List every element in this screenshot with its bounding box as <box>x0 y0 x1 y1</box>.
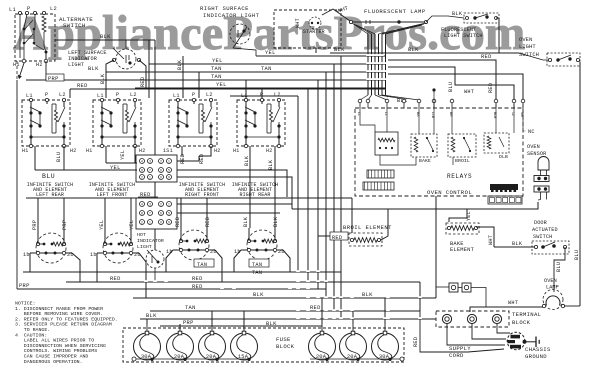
fuse 15A <box>231 333 258 360</box>
svg-text:1b: 1b <box>90 252 97 258</box>
connector block upper <box>136 155 177 182</box>
svg-text:H2: H2 <box>266 148 273 154</box>
oven control connector strip 2 <box>363 182 394 190</box>
svg-text:BLK: BLK <box>88 66 99 72</box>
svg-text:PRP: PRP <box>62 220 68 230</box>
svg-text:RIGHT SURFACE: RIGHT SURFACE <box>200 5 249 12</box>
label PRP boxed <box>46 74 64 81</box>
infinite switch left front box <box>93 100 141 146</box>
svg-text:TO RANGE.: TO RANGE. <box>15 327 50 333</box>
svg-text:H2: H2 <box>139 148 146 154</box>
svg-text:H2: H2 <box>36 62 43 68</box>
svg-text:5: 5 <box>168 211 170 215</box>
svg-text:3: 3 <box>149 159 151 163</box>
wire BLK from alternate switch to center <box>55 39 155 41</box>
svg-text:2b: 2b <box>67 252 74 258</box>
relay internal wires <box>386 108 388 132</box>
svg-text:RED: RED <box>180 154 186 164</box>
alternate switch contacts <box>19 14 21 58</box>
alternate switch heater coil <box>42 16 46 32</box>
wire bus y319 BLK <box>140 318 436 320</box>
svg-text:L2: L2 <box>206 92 213 98</box>
wire BLU y67 <box>388 67 514 100</box>
svg-text:H2: H2 <box>70 148 77 154</box>
oven control box <box>355 108 523 196</box>
oven control inner left box <box>375 132 398 155</box>
svg-text:LIGHT SWITCH: LIGHT SWITCH <box>444 33 483 39</box>
svg-text:BAKE: BAKE <box>419 158 431 164</box>
svg-text:BROIL ELEMENT: BROIL ELEMENT <box>343 224 392 231</box>
svg-text:BLK: BLK <box>362 292 373 298</box>
svg-text:NOTICE:: NOTICE: <box>15 301 36 307</box>
svg-text:TAN: TAN <box>252 270 262 276</box>
wire RED y89 <box>70 88 386 90</box>
svg-text:BLK: BLK <box>146 313 157 319</box>
svg-text:7: 7 <box>149 211 151 215</box>
svg-text:6: 6 <box>160 211 162 215</box>
svg-text:2. REFER ONLY TO FEATURES EQUI: 2. REFER ONLY TO FEATURES EQUIPPED. <box>15 316 118 322</box>
svg-text:P: P <box>45 92 48 98</box>
svg-text:LEFT REAR: LEFT REAR <box>36 192 64 198</box>
sensor connector black pins <box>493 181 495 183</box>
svg-text:L2: L2 <box>130 92 137 98</box>
wire BLK bus y53 <box>330 52 519 54</box>
svg-text:LABEL ALL WIRES PRIOR TO: LABEL ALL WIRES PRIOR TO <box>15 338 94 344</box>
wire y209 long to oven control <box>292 202 538 209</box>
svg-text:BLK: BLK <box>243 216 249 227</box>
right surface indicator lamp <box>230 24 250 44</box>
infinite switch right front terminals <box>176 98 179 101</box>
infinite switch right rear contacts <box>245 102 247 112</box>
fuse 20A <box>309 333 336 360</box>
svg-text:9: 9 <box>168 220 170 224</box>
svg-text:WHT: WHT <box>295 18 301 28</box>
hot indicator lamp <box>146 250 164 268</box>
infinite switch left front contacts <box>101 102 103 112</box>
svg-text:BLK: BLK <box>244 155 250 166</box>
svg-text:RED: RED <box>413 337 419 347</box>
svg-text:6: 6 <box>160 168 162 172</box>
infinite switch right front box <box>169 100 217 146</box>
broil relay <box>448 134 476 157</box>
surface element right front <box>179 230 209 260</box>
svg-text:TAN: TAN <box>211 74 222 80</box>
svg-text:TAN: TAN <box>261 66 272 72</box>
svg-text:BLK: BLK <box>100 34 111 40</box>
svg-text:WHT: WHT <box>508 300 518 306</box>
fuse 20A <box>340 333 367 360</box>
infinite switch right rear terminals <box>244 98 247 101</box>
svg-text:RIGHT FRONT: RIGHT FRONT <box>185 192 219 198</box>
svg-text:H1: H1 <box>86 148 93 154</box>
svg-text:YEL: YEL <box>265 50 276 56</box>
element vertical feeds <box>37 198 39 244</box>
fuse 30A <box>134 333 161 360</box>
connector wires right <box>177 156 199 161</box>
svg-text:RED: RED <box>481 54 492 60</box>
door actuated switch <box>532 241 569 254</box>
svg-text:1: 1 <box>168 202 170 206</box>
svg-text:WHT: WHT <box>464 89 474 95</box>
svg-text:BA: BA <box>416 112 420 117</box>
svg-text:GROUND: GROUND <box>525 353 547 360</box>
relay internal wires right <box>495 104 497 133</box>
svg-text:OVEN: OVEN <box>527 144 540 150</box>
wire vertical x183 BLK <box>182 56 184 98</box>
svg-text:RED: RED <box>205 217 211 227</box>
fuse 20A <box>199 333 226 360</box>
svg-text:RED: RED <box>77 83 88 89</box>
svg-text:DLB: DLB <box>499 154 508 160</box>
svg-text:RED: RED <box>192 284 203 290</box>
svg-text:LIGHT: LIGHT <box>137 244 152 250</box>
svg-text:ELEMENT: ELEMENT <box>450 247 475 253</box>
svg-text:BLU: BLU <box>56 152 62 162</box>
svg-text:RELAYS: RELAYS <box>447 173 472 180</box>
vertical x436 from oven control <box>435 196 437 298</box>
label BLK y313 <box>145 298 147 313</box>
svg-text:7: 7 <box>149 168 151 172</box>
infinite switch right front contacts <box>177 102 179 112</box>
indicator square 2 <box>462 283 471 292</box>
TAN labels boxed under elements <box>194 259 214 267</box>
svg-text:1: 1 <box>168 159 170 163</box>
svg-text:LIGHT: LIGHT <box>68 62 84 68</box>
svg-text:2: 2 <box>141 220 143 224</box>
svg-text:L2: L2 <box>59 92 66 98</box>
svg-text:CAN CAUSE IMPROPER AND: CAN CAUSE IMPROPER AND <box>15 354 88 360</box>
svg-text:YEL: YEL <box>129 220 135 230</box>
wire BLK horizontal y72 <box>106 71 386 73</box>
surface element left front <box>103 233 133 263</box>
svg-text:SWITCH: SWITCH <box>533 234 552 240</box>
wire bus y326 PRP <box>160 325 322 327</box>
svg-text:1: 1 <box>149 175 151 179</box>
svg-text:PRP: PRP <box>32 220 38 230</box>
svg-text:L1: L1 <box>9 7 16 13</box>
svg-text:4: 4 <box>141 202 143 206</box>
left surface indicator light lamp <box>116 49 136 69</box>
chassis ground plug <box>507 332 525 350</box>
svg-text:RED: RED <box>488 83 494 93</box>
svg-text:1. DISCONNECT RANGE FROM POWER: 1. DISCONNECT RANGE FROM POWER <box>15 306 103 312</box>
svg-text:TAN: TAN <box>252 262 262 268</box>
wire right indicator to YEL bus <box>233 48 256 56</box>
numbered plug boxes <box>488 196 522 204</box>
wire stubs to switch 4 <box>245 80 247 98</box>
bake relay <box>411 134 437 157</box>
svg-text:YEL: YEL <box>99 220 105 230</box>
wire WHT lamp to terminal block <box>470 307 543 312</box>
svg-text:CONTROLS. WIRING PROBLEMS: CONTROLS. WIRING PROBLEMS <box>15 348 97 354</box>
svg-text:1S1: 1S1 <box>163 148 173 154</box>
svg-text:TERMINAL: TERMINAL <box>512 311 541 318</box>
svg-text:BLOCK: BLOCK <box>276 343 295 350</box>
infinite switch left rear contacts <box>30 102 32 112</box>
svg-text:WHT: WHT <box>488 235 494 245</box>
element bottom feeds <box>29 253 31 272</box>
svg-text:HOT: HOT <box>137 232 146 238</box>
wire bus y311 TAN/RED <box>150 310 420 312</box>
svg-text:8: 8 <box>141 211 143 215</box>
svg-text:3. SERVICER PLEASE RETURN DIAG: 3. SERVICER PLEASE RETURN DIAGRAM <box>15 322 112 328</box>
element left rear lower contact row <box>30 252 72 254</box>
svg-text:YEL: YEL <box>120 150 126 160</box>
infinite switch left front terminals <box>100 98 103 101</box>
svg-text:BLK: BLK <box>177 59 183 70</box>
svg-text:STARTER: STARTER <box>303 29 325 35</box>
svg-text:0: 0 <box>160 175 162 179</box>
svg-text:P: P <box>116 92 119 98</box>
svg-text:L1: L1 <box>97 93 104 99</box>
wire BLU door switch to lamp <box>554 247 565 292</box>
fuse block box <box>123 328 404 362</box>
wire BLK verticals from switch4 <box>249 146 251 228</box>
broil wires <box>318 235 330 237</box>
svg-text:BLB: BLB <box>493 112 497 119</box>
svg-text:P: P <box>260 92 263 98</box>
terminal block box <box>436 311 509 327</box>
wire YEL y88 <box>135 87 386 89</box>
svg-text:12: 12 <box>511 112 515 116</box>
svg-text:BLK: BLK <box>100 73 106 84</box>
svg-text:2b: 2b <box>134 252 141 258</box>
svg-text:TAN: TAN <box>211 66 222 72</box>
svg-text:FUSE: FUSE <box>276 336 291 343</box>
wire bus y272 <box>23 271 341 273</box>
svg-text:L1: L1 <box>357 112 361 116</box>
svg-text:BLK: BLK <box>273 216 279 227</box>
svg-text:2b: 2b <box>278 249 285 255</box>
svg-text:PRP: PRP <box>19 283 30 289</box>
svg-text:BLU: BLU <box>556 262 562 272</box>
fuse bottom rail <box>132 357 136 361</box>
svg-text:H1: H1 <box>13 62 20 68</box>
svg-text:2: 2 <box>141 175 143 179</box>
svg-text:9: 9 <box>168 175 170 179</box>
svg-text:BLU: BLU <box>574 250 580 260</box>
svg-text:2: 2 <box>160 202 162 206</box>
svg-text:RED: RED <box>175 217 181 227</box>
svg-text:BROIL: BROIL <box>455 158 470 164</box>
svg-text:RED: RED <box>140 77 146 87</box>
svg-text:RIGHT REAR: RIGHT REAR <box>239 192 270 198</box>
svg-text:SWITCH: SWITCH <box>63 22 86 29</box>
svg-text:BLK: BLK <box>253 292 264 298</box>
oven control top terminals <box>358 99 362 103</box>
svg-text:4: 4 <box>141 159 143 163</box>
svg-text:H2: H2 <box>214 148 221 154</box>
wire bus y282 RED <box>66 281 420 283</box>
connector block lower <box>136 198 177 229</box>
svg-text:DANGEROUS OPERATION.: DANGEROUS OPERATION. <box>15 359 83 365</box>
svg-text:H1: H1 <box>233 148 240 154</box>
svg-text:SWITCH: SWITCH <box>519 52 539 58</box>
DLB relay <box>484 133 509 153</box>
svg-text:NC: NC <box>528 129 535 135</box>
svg-text:4 CAUTION:: 4 CAUTION: <box>15 332 47 338</box>
element right rear lower contact row <box>241 249 283 251</box>
fuse top feed stubs <box>146 319 148 324</box>
svg-text:BLU: BLU <box>42 173 55 180</box>
surface element right rear <box>247 230 277 260</box>
fuse 20A <box>167 333 194 360</box>
svg-text:SUPPLY: SUPPLY <box>449 345 471 352</box>
wire vertical x155 <box>154 40 156 155</box>
svg-text:BLU: BLU <box>448 82 454 92</box>
H1 H2 terminals <box>22 59 26 63</box>
svg-text:0: 0 <box>160 220 162 224</box>
broil element <box>349 233 382 246</box>
svg-text:H1: H1 <box>22 148 29 154</box>
element left front lower contact row <box>97 252 139 254</box>
supply cord wires <box>447 324 505 345</box>
terminal studs <box>442 314 451 323</box>
svg-text:BLK: BLK <box>512 241 523 247</box>
black connector <box>490 184 518 190</box>
svg-text:BEFORE REMOVING WIRE COVER.: BEFORE REMOVING WIRE COVER. <box>15 311 103 317</box>
indicator square 1 <box>449 283 458 292</box>
surface element left rear <box>36 233 66 263</box>
infinite switch left rear terminals <box>29 98 32 101</box>
oven lamp <box>546 296 560 306</box>
wire bus y298 BLK <box>133 297 436 299</box>
wire vertical x199 <box>198 72 200 98</box>
svg-text:ACTUATED: ACTUATED <box>532 227 558 233</box>
wire crossover hops, lower buses <box>296 270 300 272</box>
svg-text:FLUORESCENT LAMP: FLUORESCENT LAMP <box>364 8 426 15</box>
svg-text:BLK: BLK <box>268 159 274 170</box>
left edge vertical wire <box>19 63 24 78</box>
alternate switch terminals <box>18 11 21 14</box>
wire crossover hops, element row <box>144 280 148 282</box>
svg-text:LEFT FRONT: LEFT FRONT <box>96 192 127 198</box>
bundle B top fan <box>352 23 368 34</box>
svg-text:L2: L2 <box>50 6 57 12</box>
wire bundle B verticals <box>367 34 369 95</box>
bundle B bottom fan to oven control terminals <box>360 95 368 100</box>
wire RED y60 <box>388 60 496 100</box>
alternate switch box <box>15 14 55 61</box>
wire vertical x149 <box>148 40 150 98</box>
svg-text:NB: NB <box>520 112 524 117</box>
wire right edge down from oven light switch <box>579 62 581 306</box>
svg-text:2: 2 <box>160 159 162 163</box>
svg-text:L2: L2 <box>274 92 281 98</box>
infinite switch left rear box <box>22 100 70 146</box>
svg-text:8: 8 <box>141 168 143 172</box>
svg-text:L1: L1 <box>26 93 33 99</box>
svg-text:1: 1 <box>149 220 151 224</box>
svg-text:L1B: L1B <box>431 112 435 119</box>
svg-text:INDICATOR LIGHT: INDICATOR LIGHT <box>203 12 260 19</box>
svg-text:BLK: BLK <box>334 47 345 53</box>
svg-text:LIGHT: LIGHT <box>519 44 536 50</box>
svg-text:DOOR: DOOR <box>534 220 547 226</box>
svg-text:BLOCK: BLOCK <box>512 319 531 326</box>
svg-text:RED: RED <box>199 154 205 164</box>
svg-text:1b: 1b <box>23 252 30 258</box>
wire BLU from H terminals <box>34 146 36 170</box>
svg-text:P: P <box>192 92 195 98</box>
oven control connector strip 1 <box>367 170 394 178</box>
wire bundle corners <box>340 56 342 319</box>
svg-text:DISCONNECTION WHEN SERVICING: DISCONNECTION WHEN SERVICING <box>15 343 106 349</box>
wire y198 long bus <box>26 197 352 199</box>
svg-text:BLK: BLK <box>452 11 463 17</box>
svg-text:RED: RED <box>192 276 203 282</box>
svg-text:L1: L1 <box>384 112 388 116</box>
svg-text:INDICATOR: INDICATOR <box>137 238 164 244</box>
bake element <box>446 223 479 234</box>
svg-text:CORD: CORD <box>449 352 464 359</box>
svg-text:PRP: PRP <box>183 320 194 326</box>
svg-text:2b: 2b <box>210 249 217 255</box>
svg-text:BR: BR <box>449 112 453 117</box>
svg-text:YEL: YEL <box>212 58 223 64</box>
infinite switch right rear box <box>237 100 285 146</box>
svg-text:BLK: BLK <box>408 47 419 53</box>
svg-text:OVEN: OVEN <box>519 37 532 43</box>
svg-text:PRP: PRP <box>48 76 59 82</box>
svg-text:TAN: TAN <box>185 305 196 311</box>
svg-text:OVEN CONTROL: OVEN CONTROL <box>427 189 472 196</box>
wire RED verticals from switch3 <box>181 146 183 156</box>
svg-text:OVEN: OVEN <box>544 278 557 284</box>
svg-text:RED: RED <box>332 235 342 241</box>
svg-text:CHASSIS: CHASSIS <box>525 346 551 353</box>
svg-text:L1: L1 <box>241 93 248 99</box>
wire bus y289 PRP <box>17 288 326 290</box>
ground symbol <box>526 341 536 343</box>
wire YEL from switch2 <box>105 146 107 163</box>
svg-text:TAN: TAN <box>197 262 207 268</box>
wire node vertical x106 BLK <box>106 60 114 98</box>
svg-text:L1: L1 <box>173 93 180 99</box>
svg-text:5: 5 <box>168 168 170 172</box>
fluorescent lamp tube <box>349 20 352 23</box>
wire from fluorescent switch down <box>496 18 499 53</box>
svg-text:YEL: YEL <box>110 165 121 171</box>
starter box <box>274 10 341 48</box>
wire RED to terminal block <box>420 311 504 352</box>
wire WHT to door switch <box>494 246 534 248</box>
element right front lower contact row <box>173 249 215 251</box>
wire YEL y64 <box>149 63 386 65</box>
wire WHT y74 <box>388 74 523 100</box>
wires near indicator squares <box>436 286 449 288</box>
wire PRP y80 <box>45 61 47 80</box>
svg-text:YEL: YEL <box>216 82 227 88</box>
svg-text:RED: RED <box>110 276 121 282</box>
fuse 30A <box>372 333 399 360</box>
oven light switch <box>547 53 580 66</box>
wire crossover hops, center bundle <box>366 54 370 56</box>
svg-text:3: 3 <box>149 202 151 206</box>
wire from lamp right down RED <box>139 60 146 89</box>
